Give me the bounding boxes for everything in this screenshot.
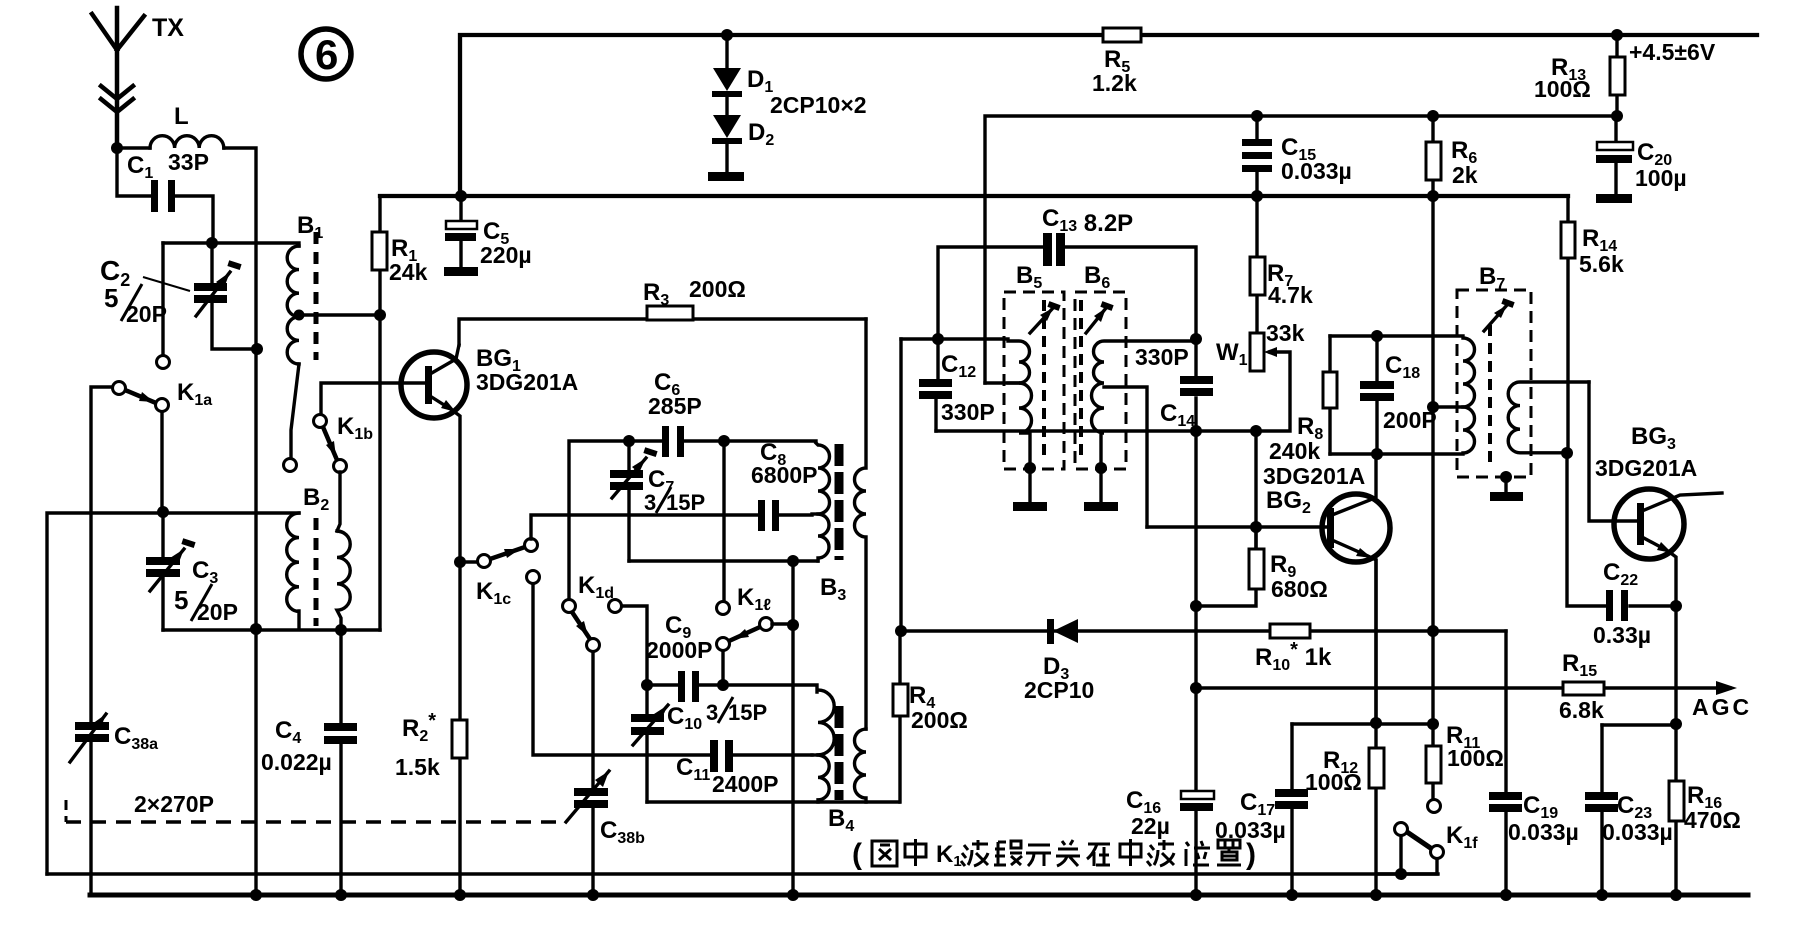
wire: top V+ rail xyxy=(460,35,1757,196)
capacitor C17 xyxy=(1290,724,1293,896)
svg-text:0.033µ: 0.033µ xyxy=(1281,158,1352,184)
位 xyxy=(1186,841,1210,866)
wire: K1e top contact branch xyxy=(722,441,725,601)
resistor R15 xyxy=(1563,682,1604,695)
wire: L to B2 line xyxy=(224,148,256,896)
svg-text:15P: 15P xyxy=(666,490,705,515)
transformer B6 winding xyxy=(1092,341,1197,468)
svg-text:20P: 20P xyxy=(197,599,238,625)
svg-text:33k: 33k xyxy=(1266,320,1305,346)
关 xyxy=(1056,840,1080,866)
wire: BG1 base / K1b xyxy=(321,383,425,414)
junction: rail2 / C15 xyxy=(1251,110,1263,122)
switch K1b xyxy=(284,459,297,472)
transistor BG1 xyxy=(401,352,467,418)
junction: C1 / C2 xyxy=(206,237,218,249)
IF can B6 (dashed) xyxy=(1075,292,1126,469)
中 xyxy=(1120,839,1141,866)
svg-text:3: 3 xyxy=(706,700,718,725)
IF can B7 (dashed) xyxy=(1457,290,1531,477)
svg-text:3DG201A: 3DG201A xyxy=(1263,463,1365,489)
svg-text:1.2k: 1.2k xyxy=(1092,70,1137,96)
antenna TX xyxy=(92,8,144,148)
junction: K1f pivot on ground rail xyxy=(1395,868,1407,880)
capacitor C38a (gang) xyxy=(89,742,92,895)
junction: C14 bottom xyxy=(1190,425,1202,437)
svg-text:2400P: 2400P xyxy=(712,771,779,797)
junction: C4 top xyxy=(335,624,347,636)
波 xyxy=(1147,840,1174,866)
wire: BG2 base line xyxy=(1147,525,1328,528)
B5 core xyxy=(1042,300,1046,460)
svg-text:0.33µ: 0.33µ xyxy=(1593,622,1651,648)
B2 core xyxy=(314,518,319,626)
svg-text:24k: 24k xyxy=(389,259,428,285)
junction: top rail / R13 xyxy=(1611,29,1623,41)
capacitor C16 xyxy=(1194,688,1197,896)
wire: mixer collector riser xyxy=(899,339,902,631)
resistor R14 xyxy=(1566,196,1569,453)
junction: C12 top xyxy=(932,333,944,345)
switch K1e xyxy=(717,602,730,615)
wire: upper ground rail xyxy=(47,872,1438,875)
svg-text:2CP10: 2CP10 xyxy=(1024,677,1094,703)
wire: AGC bus xyxy=(1196,686,1730,689)
svg-text:TX: TX xyxy=(152,14,184,42)
inductor L xyxy=(117,146,150,149)
resistor R13 xyxy=(1615,35,1618,116)
wire: K1e common vertical xyxy=(791,561,794,896)
capacitor C10 (trimmer) xyxy=(645,685,648,802)
capacitor C12 xyxy=(936,339,938,431)
resistor R11 xyxy=(1431,724,1434,799)
junction: top rail / diode branch xyxy=(721,29,733,41)
开 xyxy=(1026,845,1051,866)
svg-text:6.8k: 6.8k xyxy=(1559,697,1604,723)
wire: C9/C10 line to B4 top xyxy=(647,685,817,692)
junction: B6 ground stub xyxy=(1095,462,1107,474)
svg-text:(: ( xyxy=(852,838,862,871)
capacitor C23 xyxy=(1600,725,1603,896)
capacitor C15 xyxy=(1255,116,1258,196)
resistor R3 xyxy=(459,319,866,345)
capacitor C14 xyxy=(1194,341,1197,431)
wire: B5 tank top xyxy=(901,337,1008,340)
resistor R16 xyxy=(1674,724,1677,896)
resistor R7 xyxy=(1255,196,1258,333)
svg-text:AGC: AGC xyxy=(1692,694,1752,720)
junction: rail3 / R7 xyxy=(1251,190,1263,202)
svg-text:L: L xyxy=(174,103,189,130)
B7 tuning arrow xyxy=(1484,305,1507,331)
wire: K1e lower contact to C9 line xyxy=(721,651,724,685)
svg-text:20P: 20P xyxy=(126,301,167,327)
svg-text:100µ: 100µ xyxy=(1635,165,1687,191)
svg-text:100Ω: 100Ω xyxy=(1305,769,1362,795)
junction: R1 bottom / B1 tap wire xyxy=(374,309,386,321)
capacitor C20 xyxy=(1614,116,1617,194)
wire: C11 to B4 tap xyxy=(812,753,818,756)
在 xyxy=(1087,844,1110,866)
ground (below D2) xyxy=(708,172,744,181)
transformer B4 primary xyxy=(818,690,834,802)
diode D3 xyxy=(901,629,1506,632)
junction: C6 right / K1e branch xyxy=(718,435,730,447)
junction: AGC bus left xyxy=(1190,682,1202,694)
svg-text:100Ω: 100Ω xyxy=(1534,76,1591,102)
capacitor C2 (trimmer) xyxy=(212,243,257,349)
junction: D3 line / R6 branch xyxy=(1427,625,1439,637)
junction: C22 / BG3 emitter xyxy=(1670,600,1682,612)
resistor R4 xyxy=(898,631,901,802)
transformer B2 primary xyxy=(287,513,299,629)
junction: C18 top xyxy=(1371,330,1383,342)
switch K1d xyxy=(563,600,576,613)
svg-text:0.022µ: 0.022µ xyxy=(261,749,332,775)
wire: K1c lower contact to C11 line xyxy=(533,584,812,755)
junction: rail3 / C5 xyxy=(455,190,467,202)
wire: emitter of BG2 to R12 xyxy=(1374,560,1377,723)
svg-text:5.6k: 5.6k xyxy=(1579,251,1624,277)
junction: C9 left xyxy=(641,679,653,691)
resistor R6 xyxy=(1431,116,1434,196)
svg-text:3DG201A: 3DG201A xyxy=(476,369,578,395)
svg-text:330P: 330P xyxy=(941,399,995,425)
junction: rail2 / R13 / C20 xyxy=(1611,110,1623,122)
ground (B7) xyxy=(1504,477,1507,492)
junction: antenna line / B2 bottom xyxy=(250,623,262,635)
switch K1c xyxy=(454,556,466,568)
波 xyxy=(961,840,988,866)
potentiometer W1 xyxy=(1250,333,1264,371)
svg-text:330P: 330P xyxy=(1135,344,1189,370)
中 xyxy=(905,839,926,866)
svg-text:4.7k: 4.7k xyxy=(1268,282,1313,308)
wire: emitter vertical xyxy=(1674,606,1677,724)
ground (B5) xyxy=(1028,468,1031,502)
junction: rail3 / R6 xyxy=(1427,190,1439,202)
junction: W1 bottom / tank bus xyxy=(1250,425,1262,437)
svg-text:200Ω: 200Ω xyxy=(689,276,746,302)
capacitor C4 xyxy=(339,630,342,896)
wire: C17/R12/R11 link xyxy=(1292,722,1433,725)
wire: B7 primary top feed xyxy=(1330,334,1463,337)
transformer B3 primary xyxy=(816,443,830,561)
wire: B7 secondary to BG3 base xyxy=(1589,382,1638,521)
junction: C3 top xyxy=(157,506,169,518)
段 xyxy=(994,841,1022,865)
caption: (图中K1波段开关在中波位置) xyxy=(852,838,1256,871)
junction: R12 top xyxy=(1370,717,1382,729)
wire: third rail (main V+ bus) xyxy=(380,194,1568,198)
svg-text:15P: 15P xyxy=(728,700,767,725)
wire: C7 bottom loop xyxy=(629,559,818,562)
IF can B5 (dashed) xyxy=(1004,292,1064,469)
junction: C18 bottom / BG2 collector xyxy=(1371,448,1383,460)
junction: C6 left / C7 xyxy=(623,435,635,447)
switch K1a xyxy=(157,356,170,369)
junction: R9 return xyxy=(1190,600,1202,612)
capacitor C11 xyxy=(710,740,718,772)
capacitor C8 xyxy=(758,500,765,531)
wire: C1/C2 node xyxy=(163,243,299,246)
capacitor C5 xyxy=(459,196,462,267)
svg-text:240k: 240k xyxy=(1269,438,1320,464)
svg-text:33P: 33P xyxy=(168,149,209,175)
capacitor C9 xyxy=(678,671,685,702)
junction: emitter / R16 / C23 xyxy=(1670,718,1682,730)
svg-text:2CP10×2: 2CP10×2 xyxy=(770,92,867,118)
resistor R5 xyxy=(1103,28,1141,42)
svg-text:0.033µ: 0.033µ xyxy=(1508,819,1579,845)
junction: K1e common xyxy=(787,619,799,631)
transformer B5 winding xyxy=(1008,341,1032,468)
B3 core xyxy=(835,444,844,560)
resistor R8 xyxy=(1328,336,1331,454)
capacitor C6 xyxy=(662,426,669,457)
svg-text:1.5k: 1.5k xyxy=(395,754,440,780)
junction: B7 shield ground xyxy=(1500,471,1512,483)
junction: C9 right xyxy=(717,679,729,691)
junction dots on bottom rail xyxy=(250,889,262,901)
wire: emitter bypass link xyxy=(1602,723,1676,726)
junction: rail2 / R6 xyxy=(1427,110,1439,122)
svg-text:2k: 2k xyxy=(1452,162,1478,188)
wire: second supply rail (after R5/R13) xyxy=(985,116,1617,383)
B6 core xyxy=(1079,300,1083,460)
ground (B6) xyxy=(1099,468,1102,502)
wire: B2 bottom line xyxy=(163,628,380,631)
wire: bottom ground rail xyxy=(90,893,1748,898)
transformer B4 secondary xyxy=(855,729,866,802)
B5 tuning arrow xyxy=(1030,308,1053,333)
svg-text:285P: 285P xyxy=(648,393,702,419)
wire: C14 line down to AGC bus xyxy=(1194,431,1197,688)
svg-text:5: 5 xyxy=(104,283,118,313)
capacitor C1 xyxy=(117,148,213,243)
wire: R6 branch vertical xyxy=(1431,196,1434,725)
svg-text:0.033µ: 0.033µ xyxy=(1602,819,1673,845)
svg-text:2×270P: 2×270P xyxy=(134,791,214,817)
B6 tuning arrow xyxy=(1086,308,1106,333)
svg-text:5: 5 xyxy=(174,585,188,615)
svg-text:6800P: 6800P xyxy=(751,462,818,488)
wire: C2 left branch to K1a contact xyxy=(161,243,164,355)
wire: B5 tap supply xyxy=(985,381,1019,384)
transformer B3 secondary xyxy=(855,319,866,729)
wire: diode branch xyxy=(725,35,728,172)
transistor BG3 xyxy=(1614,489,1684,559)
transformer B7 primary xyxy=(1463,338,1475,453)
junction: B1 tap xyxy=(294,310,305,321)
wire: B1 bottom to K1b contact xyxy=(291,364,299,458)
junction: collector node / D3 line xyxy=(895,625,907,637)
resistor R12 xyxy=(1374,723,1377,896)
svg-text:2000P: 2000P xyxy=(646,637,713,663)
svg-text:6: 6 xyxy=(315,31,338,78)
B7 core xyxy=(1488,325,1492,465)
svg-text:22µ: 22µ xyxy=(1131,813,1170,839)
svg-text:200Ω: 200Ω xyxy=(911,707,968,733)
resistor R9 xyxy=(1196,527,1256,606)
capacitor C3 (trimmer) xyxy=(161,512,164,630)
B1 core xyxy=(314,232,319,360)
ground (below C5) xyxy=(444,267,478,276)
transformer B2 secondary xyxy=(337,472,350,630)
wire: C6 top line xyxy=(569,441,816,599)
svg-text:680Ω: 680Ω xyxy=(1271,576,1328,602)
wire: B1 tap to R1 xyxy=(299,313,380,316)
junction: R11 top xyxy=(1427,718,1439,730)
junction: B6 top / C14 xyxy=(1190,333,1202,345)
svg-text:220µ: 220µ xyxy=(480,242,532,268)
junction: C2 bottom / antenna line xyxy=(251,343,263,355)
transformer B1 primary xyxy=(287,246,299,364)
junction: B7 secondary / R14 / C22 xyxy=(1561,447,1573,459)
transistor BG2 xyxy=(1322,494,1390,562)
svg-text:+4.5±6V: +4.5±6V xyxy=(1629,39,1716,65)
capacitor C7 (trimmer) xyxy=(627,441,630,561)
wire: oscillator tank bottom loop xyxy=(647,800,899,803)
junction: B7 tap xyxy=(1427,401,1439,413)
svg-text:3: 3 xyxy=(644,490,656,515)
wire: C3/B2-primary top line xyxy=(47,513,299,874)
wire: K1d right contact to C9/C10 xyxy=(622,606,647,685)
capacitor C13 xyxy=(1043,233,1052,266)
node AGC (arrow out) xyxy=(1716,681,1737,695)
junction: B5 ground stub xyxy=(1024,462,1036,474)
svg-text:100Ω: 100Ω xyxy=(1447,745,1504,771)
node: circled 6 marker xyxy=(301,29,351,79)
wire: K1c upper contact to C8 line xyxy=(531,515,812,539)
wire: W1 to BG2 base divider xyxy=(1254,431,1257,549)
B4 core xyxy=(835,706,844,800)
图 xyxy=(872,841,897,866)
wire: K1a lower contact to C3 line xyxy=(160,412,163,512)
capacitor C22 xyxy=(1567,453,1676,606)
switch K1f xyxy=(1428,800,1441,813)
svg-text:): ) xyxy=(1246,838,1256,871)
junction: antenna / L / C1 xyxy=(111,142,123,154)
diode D1 xyxy=(713,68,741,91)
svg-text:3DG201A: 3DG201A xyxy=(1595,455,1697,481)
junction: base line / W1 divider xyxy=(1250,521,1262,533)
gang link dashed line 2x270P xyxy=(65,800,68,822)
svg-text:470Ω: 470Ω xyxy=(1684,807,1741,833)
capacitor C19 xyxy=(1504,631,1507,896)
wire: B7 primary bottom / collector node xyxy=(1330,452,1463,455)
wire: B7 tap xyxy=(1433,405,1463,408)
wire: C13 branch left xyxy=(938,247,1043,339)
resistor R1 xyxy=(378,196,381,630)
wire: tank bottom bus xyxy=(936,429,1256,432)
wire: C13 branch right xyxy=(1065,247,1196,341)
junction: loop / K1e feed xyxy=(787,555,799,567)
wire: C8 to B3 tap xyxy=(812,512,818,515)
置 xyxy=(1217,840,1241,865)
diode D2 xyxy=(713,115,741,138)
resistor R10* xyxy=(1270,624,1310,638)
ground (below C20) xyxy=(1596,194,1632,203)
capacitor C18 xyxy=(1375,336,1378,454)
resistor R2* xyxy=(458,562,461,896)
transformer B7 secondary xyxy=(1508,382,1589,453)
wire: K1d common to C38b xyxy=(591,652,594,788)
capacitor C38b (gang) xyxy=(591,807,594,896)
